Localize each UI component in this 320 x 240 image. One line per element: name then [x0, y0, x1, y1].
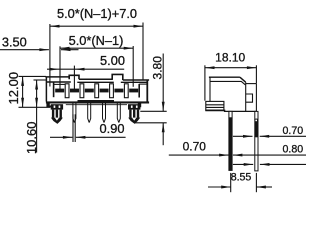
front view body inner top line right — [121, 81, 148, 83]
contact dash 4 — [100, 89, 109, 93]
contact dash 5 — [114, 89, 123, 93]
front view body bottom edge thick — [46, 101, 149, 103]
side view inner top line — [210, 81, 245, 84]
dim line 3.50 left segment — [0, 48, 49, 51]
side view slant corner — [240, 77, 246, 82]
pin 3 front view — [103, 104, 106, 123]
extension line left of dim 5.0*(N-1)+7.0 — [49, 24, 51, 87]
slot 3 — [95, 84, 99, 98]
front view cavity wall right — [138, 84, 140, 98]
front view body left edge — [45, 77, 47, 102]
dim line 0.90 left segment — [50, 136, 72, 139]
extension line top for 10.60 — [34, 79, 46, 81]
contact dash 1 — [55, 89, 64, 93]
side view pin 2 notch — [255, 120, 257, 122]
snap peg right — [128, 104, 140, 124]
extension line bottom shared 12.00/10.60 — [19, 106, 51, 108]
pin 2 front view — [88, 104, 91, 123]
side view hatch box — [205, 101, 225, 110]
svg-text:5.0*(N–1)+7.0: 5.0*(N–1)+7.0 — [57, 6, 137, 21]
side view pin 2 outline top — [255, 111, 258, 119]
pin 1 front view — [73, 104, 76, 123]
svg-text:3.50: 3.50 — [2, 34, 27, 49]
side view pin 2 outline bottom — [255, 137, 258, 171]
svg-text:8.55: 8.55 — [231, 172, 252, 184]
dim line 18.10 — [205, 66, 256, 69]
side view left edge — [209, 77, 211, 101]
dim line 8.55 left lead — [208, 186, 231, 189]
extension line lower for 3.80 — [135, 122, 167, 124]
dim line 3.80 lower vertical — [162, 123, 165, 145]
thin line below bottom edge between pegs — [66, 104, 127, 106]
front view cavity wall left — [53, 82, 55, 98]
dim line 0.70 right between pins — [233, 135, 253, 138]
cell 1 top line — [54, 83, 65, 85]
pin 4 front view — [117, 104, 120, 123]
slot 1 — [65, 84, 69, 98]
dim line 5.00 — [47, 68, 124, 71]
dim line 5.0*(N-1)+7.0 — [50, 25, 143, 28]
dim line 0.80 between pins — [233, 163, 253, 166]
side view top edge — [209, 76, 240, 78]
contact dash 2 — [70, 89, 79, 93]
front view body inner top line left — [47, 81, 71, 83]
slot 4 — [110, 84, 114, 98]
svg-text:0.70: 0.70 — [183, 140, 207, 154]
dim line 0.80 tail — [260, 163, 306, 166]
svg-text:0.90: 0.90 — [100, 121, 125, 136]
extension line 8.55 left — [230, 173, 232, 192]
svg-text:0.80: 0.80 — [282, 144, 303, 156]
contact dash 3 — [85, 89, 94, 93]
corner foot right — [134, 103, 141, 107]
slot 2 — [80, 84, 84, 98]
front view body top edge left section — [45, 76, 69, 78]
side view bottom edge right — [224, 110, 257, 112]
svg-text:18.10: 18.10 — [215, 51, 245, 65]
front view polarization bump 2 — [112, 74, 123, 80]
front view body inner top line middle — [77, 81, 114, 83]
slot 5 — [124, 84, 128, 98]
extension line 8.55 right — [255, 173, 257, 192]
side view pin 1 solid — [228, 118, 232, 171]
extension line of dim 5.00 at second pin — [73, 66, 75, 90]
extension line right of dim 5.0*(N-1)+7.0 — [142, 23, 144, 80]
dim line 0.90 right segment — [76, 136, 126, 139]
contact support bar above bottom edge — [78, 100, 115, 102]
front view body top edge right section — [123, 79, 149, 81]
side view pin 2 solid — [254, 119, 258, 137]
extension line right 18.10 — [255, 65, 257, 83]
dim line 0.70 left lead — [169, 154, 229, 157]
front view body right edge — [146, 80, 148, 101]
dim line 3.50 right segment — [61, 48, 79, 51]
front view inner line right end — [139, 83, 147, 85]
side view pin 1 outline top — [229, 111, 232, 117]
dim line 0.70 left right-arrow and shared tail — [233, 154, 306, 157]
dim line 5.0*(N-1) — [60, 47, 133, 50]
extension line top for 12.00 — [19, 75, 46, 77]
contact dash 6 — [129, 89, 138, 93]
side view clip top — [246, 83, 257, 85]
corner foot left — [46, 103, 53, 107]
extension line left of dim 5.0*(N-1) — [59, 46, 61, 90]
svg-text:5.0*(N–1): 5.0*(N–1) — [69, 33, 124, 48]
extension line right of dim 5.0*(N-1) — [132, 46, 134, 87]
dim line 3.80 upper vertical — [162, 54, 165, 112]
snap peg left — [51, 104, 63, 124]
svg-text:3.80: 3.80 — [150, 56, 164, 80]
side view clip right edge — [255, 84, 257, 112]
dim line 0.70 right tail — [260, 135, 306, 138]
side view clip notch — [246, 94, 253, 102]
front view polarization bump 1 — [69, 75, 79, 79]
extension line upper for 3.80 — [140, 110, 166, 112]
dim 0.90 tick left — [72, 114, 74, 142]
dim line 8.55 right lead — [256, 186, 272, 189]
svg-text:0.70: 0.70 — [282, 125, 303, 137]
dim line 10.60 vertical — [35, 80, 38, 153]
dim line 12.00 vertical — [21, 76, 24, 107]
front view body top edge middle section — [79, 78, 112, 80]
extension line left 18.10 — [204, 65, 206, 100]
dim 0.90 tick right — [74, 114, 76, 142]
side view right edge — [245, 82, 247, 111]
svg-text:5.00: 5.00 — [100, 53, 125, 68]
